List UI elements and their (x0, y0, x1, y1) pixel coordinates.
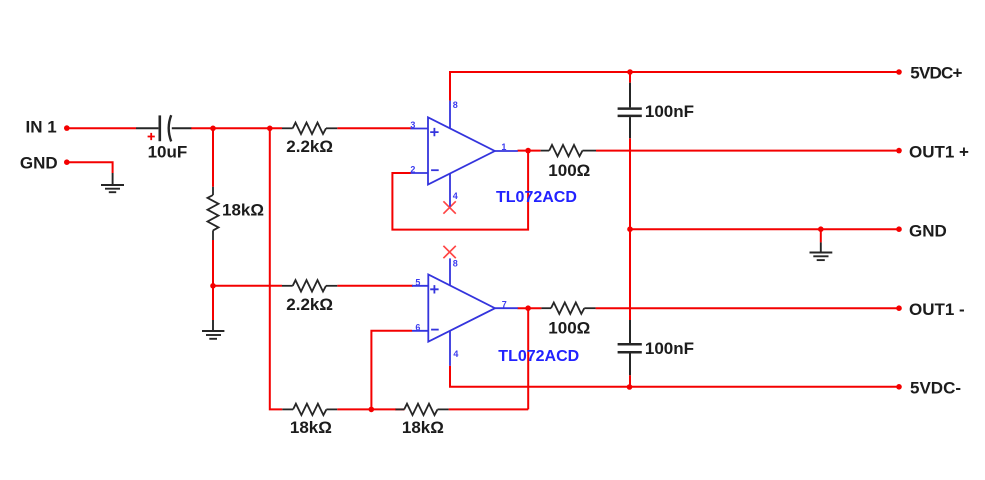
capacitor C1 10uF (136, 115, 191, 141)
wire node B to R3 (213, 285, 282, 287)
svg-text:18kΩ: 18kΩ (222, 200, 264, 219)
wire R8 to OUT1- terminal (596, 307, 899, 309)
junction IN1 terminal (64, 125, 70, 131)
resistor R8 100 bottom (541, 303, 595, 314)
svg-text:IN 1: IN 1 (26, 117, 57, 136)
svg-text:8: 8 (453, 100, 458, 110)
svg-text:8: 8 (453, 258, 458, 268)
svg-text:18kΩ: 18kΩ (402, 418, 444, 437)
svg-text:100nF: 100nF (645, 102, 694, 121)
capacitor C3 100nF bottom (618, 320, 642, 375)
svg-text:10uF: 10uF (148, 143, 188, 162)
svg-text:OUT1 -: OUT1 - (909, 300, 965, 319)
svg-text:18kΩ: 18kΩ (290, 418, 332, 437)
junction U1B output (525, 305, 531, 311)
svg-text:4: 4 (453, 349, 458, 359)
wire C2 top lead (629, 72, 631, 83)
svg-text:1: 1 (501, 142, 506, 152)
svg-text:100nF: 100nF (645, 339, 694, 358)
resistor R3 2.2k bottom (282, 280, 337, 291)
svg-text:100Ω: 100Ω (548, 161, 590, 180)
op-amp U1A (411, 101, 518, 207)
wire C2 bottom to GND rail and C3 (629, 138, 631, 320)
wire node A down to R2 (212, 128, 214, 187)
capacitor C2 100nF top (618, 83, 642, 139)
svg-text:GND: GND (909, 221, 947, 240)
svg-text:OUT1 +: OUT1 + (909, 142, 969, 161)
resistor R7 100 top (541, 145, 596, 156)
svg-text:2: 2 (410, 165, 415, 175)
junction GND rail / C2-C3 (627, 226, 633, 232)
svg-text:5VDC-: 5VDC- (910, 378, 961, 397)
junction terminal OUT1- (896, 305, 902, 311)
wire R1 to pin3 (337, 127, 411, 129)
ground symbol GND rail (810, 242, 833, 260)
junction 5VDC- / C3 (627, 384, 633, 390)
junction 5VDC+ / C2 (627, 69, 633, 75)
svg-text:TL072ACD: TL072ACD (498, 348, 579, 365)
svg-text:5VDC+: 5VDC+ (910, 64, 962, 83)
ground symbol node B (202, 320, 224, 339)
svg-text:5: 5 (415, 278, 420, 288)
resistor R2 18k vertical (208, 187, 219, 240)
junction terminal OUT1+ (896, 148, 902, 154)
resistor R5 18k bottom-left (282, 404, 337, 415)
wire node D up to pin6 (371, 331, 412, 410)
svg-text:3: 3 (410, 120, 415, 130)
junction node A (210, 126, 216, 132)
svg-text:2.2kΩ: 2.2kΩ (286, 137, 333, 156)
svg-text:6: 6 (415, 323, 420, 333)
wire R7 to OUT1+ terminal (596, 150, 899, 152)
junction U1A output (525, 148, 531, 154)
wire IN1 to C1 (67, 127, 136, 129)
wire node C vertical (270, 128, 283, 409)
wire C1 to node A (191, 127, 282, 129)
junction GND terminal left (64, 159, 70, 165)
resistor R1 2.2k top (282, 123, 337, 134)
wire U1B pin4 to 5VDC- rail (450, 366, 899, 387)
junction node C (267, 126, 273, 132)
wire R3 to pin5 (337, 285, 413, 287)
wire R5 to node D (337, 408, 395, 410)
junction GND rail ground (818, 226, 824, 232)
junction node D (369, 407, 375, 413)
wire GND rail ground stub (820, 229, 822, 242)
svg-text:100Ω: 100Ω (548, 319, 590, 338)
wire 5VDC+ rail (450, 72, 899, 101)
svg-text:7: 7 (502, 300, 507, 310)
svg-text:2.2kΩ: 2.2kΩ (286, 295, 333, 314)
ground symbol left (101, 173, 124, 192)
wire GND stub left (67, 162, 113, 173)
no-connect X pin4 U1A (443, 201, 455, 213)
op-amp U1B (412, 258, 518, 365)
wire U1A feedback pin2 (392, 151, 528, 230)
junction node B (210, 283, 216, 289)
resistor R6 18k bottom-right (396, 404, 449, 415)
wire C3 to 5VDC- rail (629, 375, 631, 387)
wire pin1 to R7 (518, 150, 541, 152)
junction terminal GND (896, 226, 902, 232)
wire GND rail (630, 228, 899, 230)
junction terminal 5VDC+ (896, 69, 902, 75)
wire node E up to OUT1- (527, 308, 529, 409)
wire R6 to node E (449, 408, 529, 410)
wire R2 to node B (212, 240, 214, 320)
wire node D to R6 (395, 408, 405, 410)
junction terminal 5VDC- (896, 384, 902, 390)
svg-text:TL072ACD: TL072ACD (496, 189, 577, 206)
svg-text:GND: GND (20, 154, 58, 173)
polarity plus C1 (148, 133, 155, 140)
wire pin7 to R8 (518, 307, 542, 309)
no-connect X pin8 U1B (443, 246, 455, 258)
svg-text:4: 4 (453, 191, 458, 201)
